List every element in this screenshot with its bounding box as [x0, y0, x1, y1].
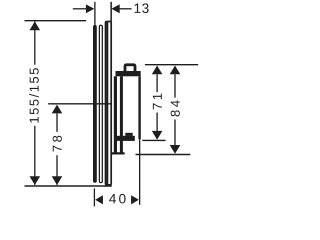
wall flange bar (solid) — [93, 25, 97, 183]
bottom baseline (155 lower reference) — [25, 185, 112, 187]
dim 13: right tail line — [119, 8, 131, 10]
knob bottom rim — [116, 136, 134, 141]
knob top cap band — [116, 71, 141, 76]
dim 40: value label — [109, 194, 125, 204]
dim 13: left extension line — [94, 2, 96, 26]
escutcheon plate inner-left thick wall — [106, 22, 108, 185]
dim 84: arrowhead down — [170, 145, 181, 154]
plate front edge extension up to dim 13 — [110, 2, 112, 22]
dim 78: dimension line upper segment — [56, 113, 58, 132]
collar bottom band — [111, 152, 125, 154]
dim 155/155: arrowhead up — [30, 21, 41, 30]
dim 71: bottom reference tick — [142, 139, 165, 141]
dim 84: dimension line upper segment — [174, 74, 176, 97]
dim 155/155: value label (rotated) — [29, 68, 39, 122]
knob bottom tab (above rim) — [125, 133, 132, 136]
dim 84: value label (rotated) — [171, 100, 180, 116]
knob mount stem — [114, 76, 117, 152]
dim 71: value label (rotated) — [153, 94, 162, 110]
carrier sleeve (outlined tube) — [99, 25, 102, 182]
dim 84: dimension line lower segment — [174, 120, 176, 146]
dim 71: dimension line lower segment — [156, 113, 158, 131]
knob right extension line (down to dim 40) — [139, 139, 140, 205]
dim 13: value label — [135, 3, 149, 13]
dim 13: left tail line — [73, 8, 86, 10]
knob left wall — [120, 76, 123, 154]
dim 155/155: top reference tick — [25, 20, 87, 22]
button bump inner white — [126, 66, 133, 71]
dim 155/155: dimension line upper segment — [34, 21, 36, 64]
dim 155/155: dimension line lower segment — [34, 126, 36, 185]
dim 40: left extension line — [93, 188, 95, 206]
dim 71: arrowhead down — [152, 131, 163, 140]
button bump outer — [124, 63, 137, 71]
dim 155/155: arrowhead down — [30, 176, 41, 185]
knob right wall — [138, 76, 140, 139]
dim 78: dimension line lower segment — [56, 155, 58, 185]
dim 78: arrowhead up — [52, 105, 63, 114]
dim 71: dimension line upper segment — [156, 74, 158, 92]
dim 71: arrowhead up — [152, 66, 163, 75]
dim 13: arrowhead pointing left — [111, 4, 119, 13]
dim 78: top reference tick — [48, 103, 112, 105]
right dims: top reference tick — [145, 64, 198, 66]
dim 40: arrowhead pointing left — [95, 195, 103, 204]
dim 84: bottom reference tick — [136, 154, 191, 156]
dim 78: arrowhead down — [52, 176, 63, 185]
dim 84: arrowhead up — [170, 66, 181, 75]
dim 78: value label (rotated) — [53, 136, 62, 152]
dim 40: arrowhead pointing right — [131, 195, 139, 204]
escutcheon plate (outlined) — [106, 22, 112, 185]
dim 13: arrowhead pointing right — [86, 4, 94, 13]
